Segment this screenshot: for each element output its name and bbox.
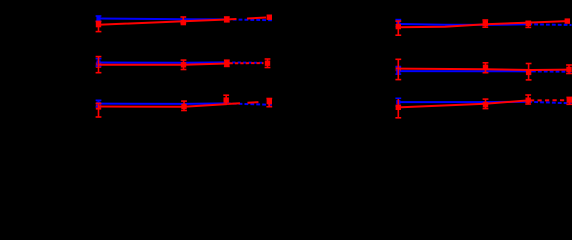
red marker left-row3 p2	[181, 104, 186, 109]
blue solid line left-row2	[99, 61, 227, 63]
blue solid line left-row1	[99, 18, 227, 21]
red solid line right-row2	[398, 69, 569, 70]
red marker left-row1 p2	[181, 20, 186, 25]
blue dashed projection left-row3	[227, 103, 272, 104]
red marker right-row2 p1 (under blue)	[396, 66, 401, 71]
red marker right-row1 p4	[565, 18, 570, 23]
blue solid line right-row1	[398, 23, 528, 26]
red marker left-row1 p3	[224, 17, 229, 22]
red errorbar right-row1 p2	[484, 20, 486, 27]
red marker right-row3 p3	[526, 98, 531, 103]
red errorbar left-row3 p4	[268, 99, 270, 107]
red marker left-row3 p4	[267, 99, 272, 104]
red errorbar right-row1 p1	[397, 21, 399, 35]
red errorbar left-row2 p2	[183, 60, 185, 69]
red marker right-row1 p1	[396, 24, 401, 29]
red marker right-row3 p2	[483, 102, 488, 107]
blue solid line left-row3	[99, 102, 227, 105]
red marker right-row2 p2	[483, 65, 488, 70]
red errorbar left-row1 p2	[182, 17, 184, 23]
red errorbar right-row3 p4	[568, 97, 570, 104]
red marker right-row3 p4	[567, 97, 572, 102]
blue dashed projection right-row3	[528, 102, 571, 104]
blue marker right-row3 p1	[396, 100, 400, 104]
blue errorbar left-row2 p1	[98, 59, 100, 66]
red errorbar right-row2 p3	[528, 64, 530, 80]
red marker left-row1 p4	[267, 15, 272, 20]
red errorbar right-row3 p2	[485, 99, 487, 109]
red errorbar left-row2 p1	[98, 57, 100, 73]
blue errorbar left-row3 p1	[98, 100, 100, 107]
red errorbar left-row1 p3	[226, 17, 228, 22]
red marker left-row2 p4	[265, 61, 270, 66]
red solid line right-row1	[398, 21, 567, 27]
red errorbar left-row1 p1	[98, 21, 100, 31]
blue solid line right-row3	[398, 101, 528, 103]
red errorbar right-row2 p2	[485, 63, 487, 73]
blue errorbar right-row2 p1	[397, 67, 399, 74]
red solid line left-row1	[99, 20, 227, 25]
blue dashed projection left-row1	[227, 18, 272, 21]
red marker left-row3 p1 (under blue)	[96, 104, 101, 109]
blue marker left-row1 p1	[96, 17, 100, 21]
red marker right-row3 p1	[396, 105, 401, 110]
blue marker left-row2 p1	[96, 60, 100, 64]
red errorbar right-row2 p4	[568, 65, 570, 74]
blue dashed projection right-row1	[528, 23, 571, 26]
blue marker right-row1 p1	[396, 21, 400, 25]
red marker right-row2 p4	[566, 67, 571, 72]
red marker left-row2 p1 (under blue)	[96, 62, 101, 67]
red marker left-row3 p3 (above line)	[224, 97, 229, 102]
red marker right-row1 p2	[483, 21, 488, 26]
red errorbar right-row1 p3	[527, 22, 529, 28]
blue dashed projection right-row2	[532, 70, 572, 72]
blue solid line right-row2	[398, 70, 532, 72]
red projection left-row1 dash a	[228, 18, 237, 20]
red marker left-row2 p2	[181, 62, 186, 67]
red errorbar left-row3 p2	[183, 101, 185, 110]
red solid line left-row2	[99, 64, 227, 65]
red errorbar left-row2 p4	[267, 59, 269, 68]
blue errorbar left-row1 p1	[98, 16, 100, 21]
red solid line left-row3	[99, 104, 227, 107]
blue dashed projection left-row2	[227, 61, 264, 63]
red marker left-row2 p3	[224, 61, 229, 66]
red marker right-row2 p3 (below line)	[526, 70, 531, 75]
red errorbar left-row2 p3	[226, 60, 228, 66]
red dashed projection right-row3	[530, 99, 566, 101]
red projection left-row1 dash b	[247, 18, 266, 19]
red solid line right-row3	[398, 100, 528, 107]
blue marker left-row3 p1	[96, 102, 100, 106]
blue errorbar right-row3 p1	[397, 98, 399, 106]
red errorbar left-row3 p1	[98, 103, 100, 117]
red errorbar right-row2 p1	[397, 59, 399, 79]
blue marker right-row2 p1	[396, 69, 400, 73]
red errorbar left-row3 p3	[225, 95, 227, 104]
red marker right-row1 p3	[526, 21, 531, 26]
red dashed projection left-row2	[227, 62, 264, 64]
red errorbar right-row3 p1	[397, 99, 399, 118]
red dashed projection left-row3	[229, 102, 266, 104]
red errorbar right-row3 p3	[527, 95, 529, 104]
red marker left-row1 p1	[96, 22, 101, 27]
blue errorbar right-row1 p1	[397, 20, 399, 27]
